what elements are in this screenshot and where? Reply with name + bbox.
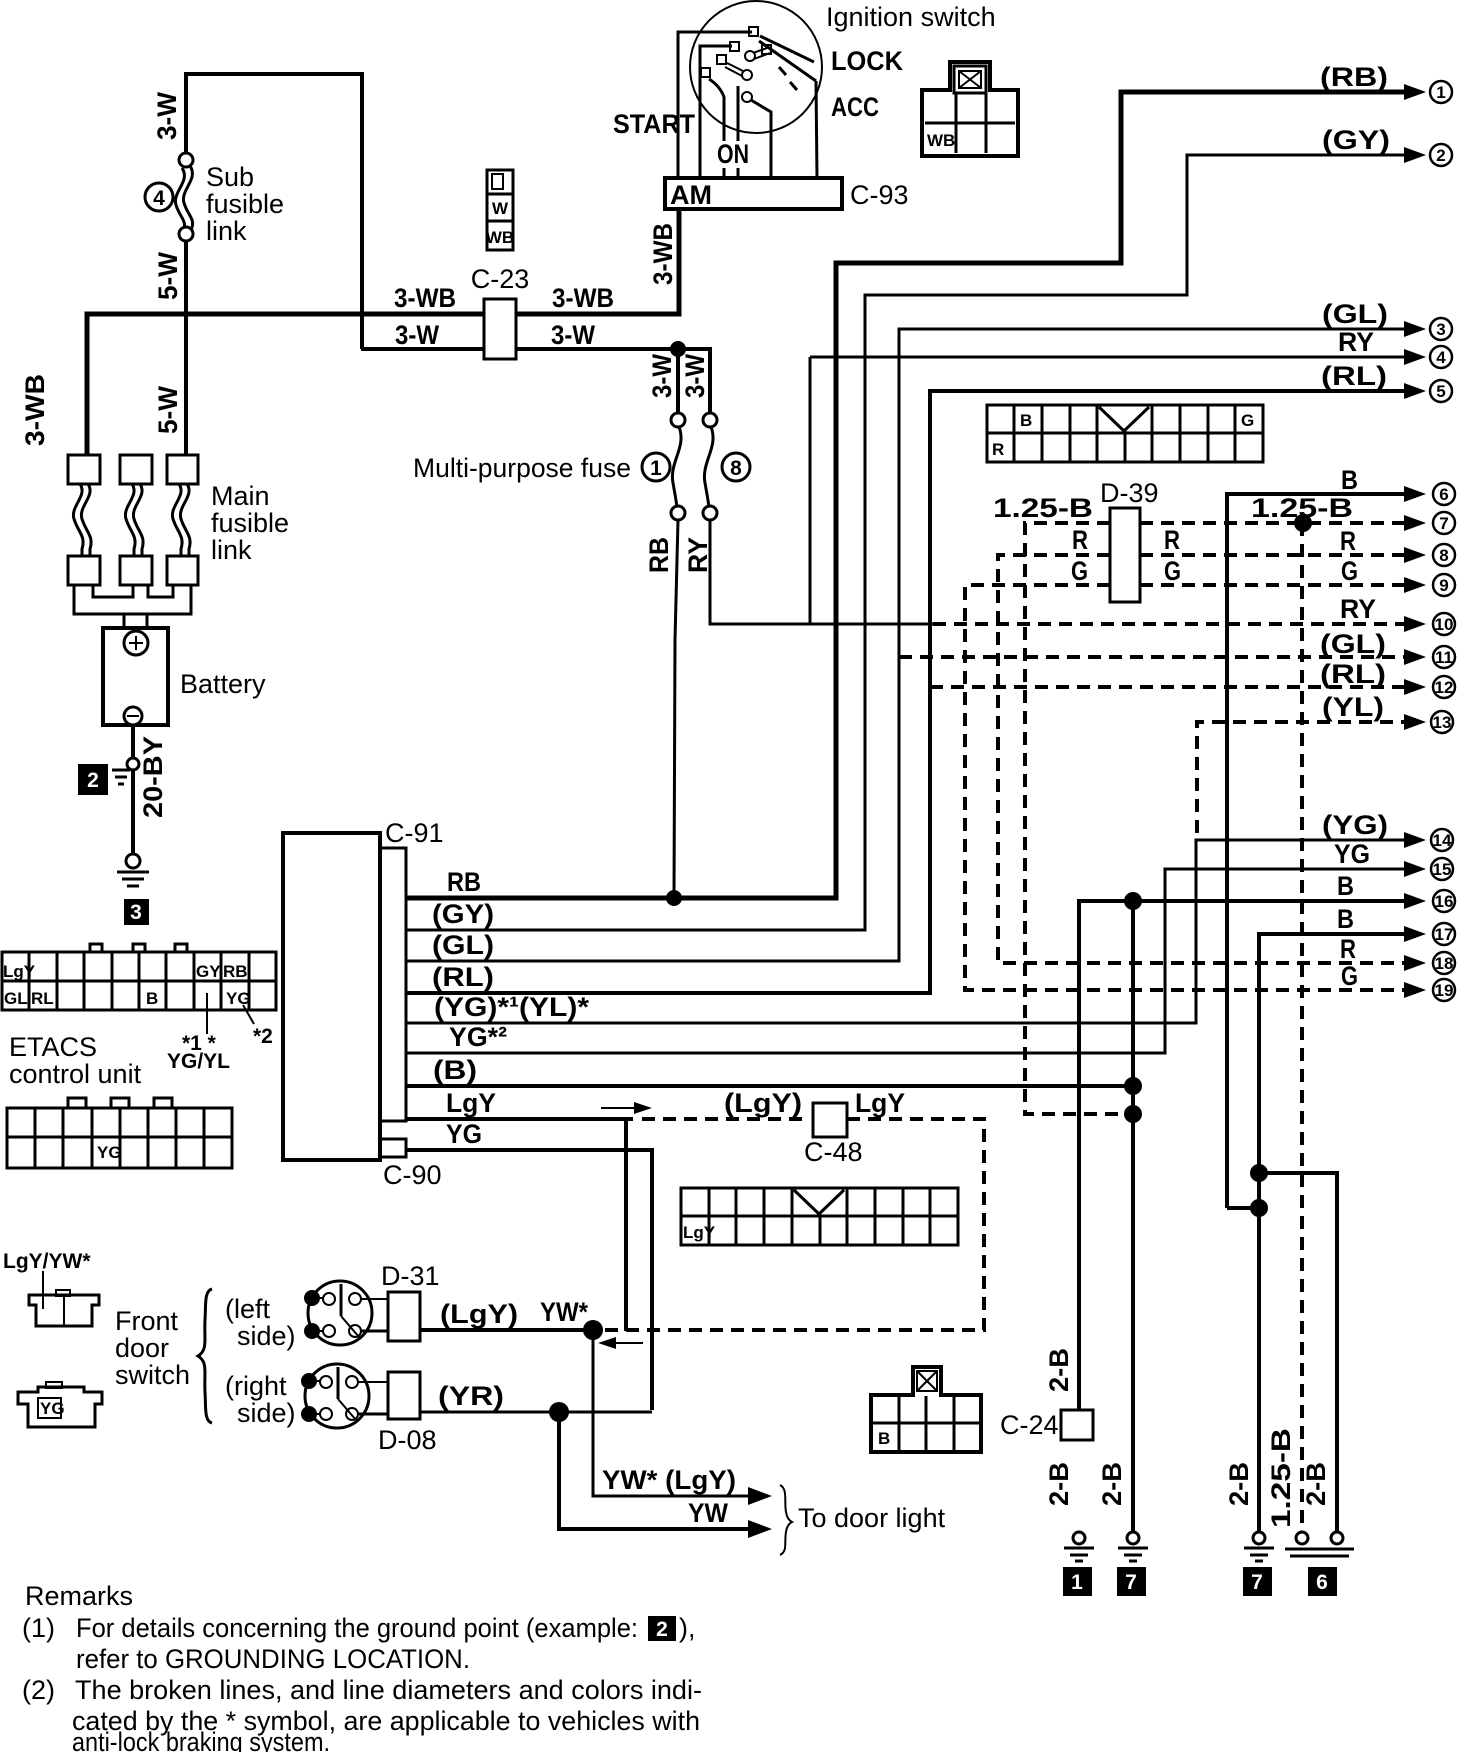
arrow 7 (1404, 515, 1426, 531)
connector icon (lower, YG) (18, 1387, 102, 1427)
bus 3-WB horizontal (87, 314, 484, 456)
svg-text:Front: Front (115, 1306, 179, 1336)
arrow 2 (1404, 147, 1426, 163)
svg-text:3-W: 3-W (395, 320, 439, 350)
svg-text:RB: RB (447, 867, 481, 897)
svg-text:2-B: 2-B (1044, 1348, 1074, 1392)
brace to door light (780, 1485, 792, 1555)
svg-text:R: R (1164, 525, 1180, 555)
svg-text:19: 19 (1435, 981, 1454, 1000)
svg-text:Multi-purpose fuse: Multi-purpose fuse (413, 453, 631, 483)
svg-text:*2: *2 (253, 1025, 273, 1048)
svg-text:control unit: control unit (9, 1059, 142, 1089)
svg-text:(B): (B) (433, 1055, 477, 1085)
svg-text:C-91: C-91 (385, 818, 444, 848)
svg-text:3-WB: 3-WB (648, 223, 678, 285)
svg-text:(YR): (YR) (438, 1381, 504, 1411)
svg-text:1: 1 (650, 457, 662, 480)
svg-text:C-93: C-93 (850, 180, 909, 210)
svg-text:link: link (211, 535, 252, 565)
ground tag 7a (1117, 1567, 1146, 1596)
svg-text:3-WB: 3-WB (20, 374, 50, 446)
connector C-24 box (1061, 1410, 1093, 1440)
wire YG*2 from C-91 to arrow 15 (406, 869, 1410, 1053)
main fusible link bottom boxes (68, 556, 100, 585)
svg-text:B: B (1337, 904, 1354, 934)
wire LgY dashed to C-48 (642, 1117, 810, 1121)
junction B17-branch (1250, 1164, 1268, 1182)
svg-text:2-B: 2-B (1301, 1462, 1331, 1506)
ground tag 1 (1063, 1567, 1092, 1596)
svg-text:4: 4 (1436, 348, 1446, 367)
wire 2-B branch to ground 6 (1259, 1173, 1337, 1532)
svg-text:G: G (1341, 556, 1358, 586)
arrow 13 (1404, 714, 1426, 730)
connector pin grid (upper right) (987, 405, 1263, 462)
arrow 10 (1404, 616, 1426, 632)
wire YL dashed to arrow 13 (1197, 722, 1410, 833)
flow arrow into junction (607, 1342, 643, 1344)
svg-text:anti-lock braking system.: anti-lock braking system. (72, 1727, 330, 1752)
svg-text:11: 11 (1435, 648, 1453, 667)
svg-text:2-B: 2-B (1224, 1462, 1254, 1506)
svg-text:7: 7 (1439, 514, 1448, 533)
wire RB from fuse to RB bus (674, 520, 678, 898)
wire RL from C-91 to arrow 5 (406, 391, 1410, 993)
brace (198, 1289, 212, 1423)
svg-text:The broken lines, and line dia: The broken lines, and line diameters and… (75, 1675, 702, 1705)
wire B16 from C-24 riser to arrow 16 (1079, 901, 1410, 1410)
svg-text:7: 7 (1125, 1571, 1137, 1594)
svg-text:(RB): (RB) (1320, 62, 1388, 92)
svg-text:3-W: 3-W (680, 354, 710, 398)
V key symbol in grid (1099, 407, 1149, 431)
svg-text:YW*: YW* (540, 1297, 588, 1327)
svg-text:For details concerning the gro: For details concerning the ground point … (76, 1613, 638, 1643)
wire B from C-91 to junction (406, 1084, 1133, 1088)
svg-text:door: door (115, 1333, 169, 1363)
svg-text:B: B (1341, 465, 1358, 495)
svg-text:(RL): (RL) (432, 962, 494, 992)
svg-text:LgY/YW*: LgY/YW* (3, 1250, 91, 1273)
arrow 18 (1404, 955, 1426, 971)
svg-text:RL: RL (31, 989, 54, 1008)
ETACS control unit box (283, 833, 380, 1160)
svg-text:Sub: Sub (206, 162, 254, 192)
svg-text:WB: WB (927, 131, 955, 150)
ETACS upper pin grid (2, 944, 276, 1010)
wire 20-BY battery to ground (131, 725, 135, 855)
wire GL from C-91 to arrow 3 (406, 329, 1410, 961)
arrow 1 (1404, 84, 1426, 100)
junction B wire (1124, 1077, 1142, 1095)
junction 1.25-B (1294, 514, 1312, 532)
svg-text:switch: switch (115, 1360, 190, 1390)
wire RL dashed to arrow 12 (930, 685, 1410, 689)
svg-text:1: 1 (1071, 1571, 1083, 1594)
junction 3-W (670, 341, 686, 357)
wire START contact to AM box (678, 32, 752, 178)
svg-text:(RL): (RL) (1321, 361, 1387, 391)
ground tag 7b (1243, 1567, 1272, 1596)
leader line *2 (243, 1005, 254, 1024)
svg-text:AM: AM (670, 180, 712, 210)
svg-text:LgY: LgY (855, 1088, 905, 1118)
svg-text:6: 6 (1316, 1571, 1328, 1594)
wire YW*(LgY) output (593, 1330, 755, 1496)
svg-text:refer to GROUNDING LOCATION.: refer to GROUNDING LOCATION. (76, 1644, 470, 1674)
connector face icon (bottom right, C-24) (871, 1367, 981, 1452)
main fusible link wavy links (81, 484, 91, 556)
wire LgY solid from C-91 (406, 1117, 633, 1121)
wire RB from C-91 to arrow 1 (406, 92, 1410, 898)
svg-text:3-W: 3-W (647, 354, 677, 398)
svg-text:(GY): (GY) (1322, 125, 1390, 155)
svg-text:Ignition switch: Ignition switch (826, 2, 996, 32)
wire GL dashed to arrow 11 (899, 655, 1410, 659)
svg-text:D-39: D-39 (1100, 478, 1159, 508)
connector pin grid (C-48 area) (681, 1188, 958, 1245)
connector D-31 box (388, 1292, 420, 1341)
sub fusible link wavy element (183, 166, 192, 230)
svg-text:YG: YG (1334, 839, 1370, 869)
svg-text:C-23: C-23 (471, 264, 530, 294)
ground symbol 3 (battery ground) (126, 854, 140, 868)
svg-text:1.25-B: 1.25-B (1266, 1428, 1296, 1528)
wire RY solid to dashed (810, 623, 933, 626)
ground point 2 symbol on wire (127, 758, 139, 770)
junction B-1208 (1250, 1199, 1268, 1217)
svg-text:1: 1 (1436, 83, 1445, 102)
battery (103, 628, 168, 725)
svg-text:2: 2 (1436, 146, 1445, 165)
connector C-23 box (484, 299, 516, 359)
svg-text:LgY: LgY (446, 1088, 496, 1118)
connector C-93 box (AM) (665, 178, 842, 209)
junction RB (666, 890, 682, 906)
wire ACC contact (751, 100, 771, 178)
wire GY from C-91 to arrow 2 (406, 155, 1410, 930)
wire LOCK contact (700, 46, 732, 178)
fuse 8 element (703, 413, 717, 427)
connector D-08 box (388, 1372, 420, 1419)
wire ON contact (709, 79, 724, 141)
wire G dashed right of D-39 to arrow 9 (1140, 583, 1410, 587)
svg-text:D-31: D-31 (381, 1261, 440, 1291)
wire R dashed right of D-39 to arrow 8 (1140, 553, 1410, 557)
svg-text:fusible: fusible (211, 508, 289, 538)
svg-text:Battery: Battery (180, 669, 266, 699)
svg-text:3-WB: 3-WB (552, 283, 614, 313)
svg-text:2-B: 2-B (1044, 1462, 1074, 1506)
connector icon (upper, LgY/YW) (29, 1295, 99, 1326)
svg-text:LgY: LgY (3, 962, 36, 981)
svg-text:12: 12 (1435, 678, 1454, 697)
wire (LgY)/YW* from D-31 (420, 1328, 595, 1332)
svg-text:(GY): (GY) (432, 899, 494, 929)
wire RY to arrow 4 (810, 356, 1410, 359)
wire 1.25-B dashed right of D-39 to arrow 7 (1140, 521, 1410, 525)
svg-text:side): side) (237, 1398, 296, 1428)
svg-text:G: G (1241, 411, 1254, 430)
svg-text:ETACS: ETACS (9, 1032, 97, 1062)
svg-text:YG: YG (97, 1143, 122, 1162)
svg-text:G: G (1071, 556, 1088, 586)
fuse 1 element (671, 413, 685, 427)
arrow 3 (1404, 321, 1426, 337)
svg-text:B: B (1337, 871, 1354, 901)
svg-text:3-W: 3-W (551, 320, 595, 350)
arrow 9 (1404, 577, 1426, 593)
svg-text:(GL): (GL) (1320, 629, 1386, 659)
connector D-39 box (1110, 508, 1140, 602)
svg-text:15: 15 (1433, 860, 1452, 879)
svg-text:4: 4 (153, 187, 165, 210)
arrow out YW (748, 1520, 772, 1538)
svg-text:LOCK: LOCK (831, 46, 903, 76)
svg-text:B: B (878, 1429, 890, 1448)
svg-text:9: 9 (1439, 576, 1448, 595)
leader line *1 (206, 993, 208, 1034)
arrow 8 (1404, 547, 1426, 563)
svg-text:YG: YG (40, 1399, 65, 1418)
ignition switch wiper arms (760, 36, 814, 62)
svg-text:14: 14 (1433, 831, 1452, 850)
svg-text:D-08: D-08 (378, 1425, 437, 1455)
wire 5-W from sub fusible link to main fusible link (184, 241, 188, 456)
circled 8 (fuse id) (722, 453, 750, 481)
svg-text:Main: Main (211, 481, 270, 511)
left door switch circle D-31 (308, 1281, 372, 1345)
wire 2-B ground 7a vertical (1131, 901, 1135, 1532)
connector face icon WB (ignition) (922, 62, 1018, 156)
svg-text:5-W: 5-W (153, 386, 183, 434)
svg-text:Remarks: Remarks (25, 1581, 133, 1611)
wire (YR) from D-08 (420, 1411, 652, 1414)
svg-text:7: 7 (1251, 1571, 1263, 1594)
arrow 5 (1404, 383, 1426, 399)
wire YG from C-90 (406, 1150, 652, 1410)
wire R dashed left of D-39 (998, 555, 1410, 963)
ignition switch contact squares (749, 27, 758, 36)
ground 7a symbol (1127, 1532, 1139, 1544)
fuse terminal circle (sub fusible link top) (179, 153, 193, 167)
flow arrow on LgY (601, 1107, 640, 1109)
svg-text:(YG)*¹(YL)*: (YG)*¹(YL)* (434, 992, 590, 1022)
svg-text:(LgY): (LgY) (724, 1088, 802, 1118)
svg-text:5-W: 5-W (153, 252, 183, 300)
svg-text:G: G (1164, 556, 1181, 586)
svg-text:YG: YG (446, 1119, 482, 1149)
svg-text:ON: ON (717, 139, 749, 169)
svg-text:RY: RY (1338, 327, 1374, 357)
svg-text:G: G (1341, 961, 1358, 991)
wire 3-W top loop from sub fusible link to 3-W bus (186, 74, 362, 349)
connector C-90 strip (380, 1139, 406, 1157)
ETACS lower pin grid (7, 1098, 232, 1168)
arrow out YW*(LgY) (748, 1487, 772, 1505)
svg-text:3: 3 (130, 901, 142, 924)
svg-text:17: 17 (1435, 925, 1454, 944)
svg-text:13: 13 (1433, 713, 1452, 732)
junction 1.25-B dashed (1124, 1105, 1142, 1123)
wire ON contact 2 (737, 86, 740, 141)
ON position stubs (723, 168, 726, 178)
wire AM from switch (816, 81, 817, 178)
svg-text:YG/YL: YG/YL (167, 1050, 230, 1073)
svg-text:6: 6 (1439, 485, 1448, 504)
svg-text:(2): (2) (22, 1675, 55, 1705)
arrow 19 (1404, 982, 1426, 998)
circled 1 (fuse id) (642, 453, 670, 481)
junction YW (549, 1402, 569, 1422)
ground point 3 black tag (124, 899, 149, 925)
svg-text:START: START (613, 109, 695, 139)
wire 1.25-B dashed left of D-39 (1025, 523, 1127, 1114)
fuse terminal circle (sub fusible link bottom) (179, 227, 193, 241)
connector C-91 strip (380, 848, 406, 1121)
wire B vertical to arrow 6 (1227, 494, 1410, 1208)
ground 1 symbol (1073, 1532, 1085, 1544)
circled 4 (sub fusible link id) (145, 183, 173, 211)
svg-text:8: 8 (730, 457, 742, 480)
svg-text:R: R (1072, 525, 1088, 555)
svg-text:20-BY: 20-BY (138, 736, 168, 818)
svg-text:2: 2 (87, 769, 99, 792)
svg-text:R: R (1340, 934, 1356, 964)
arrow 17 (1404, 926, 1426, 942)
main fusible link top boxes (68, 455, 100, 484)
connector C-48 box (813, 1103, 847, 1137)
svg-text:(GL): (GL) (432, 930, 494, 960)
connector C-23 icon (487, 170, 513, 194)
svg-text:ACC: ACC (831, 92, 879, 122)
svg-text:),: ), (679, 1613, 696, 1643)
wire LgY dashed after C-48 (598, 1119, 984, 1330)
wire RY from fuse (710, 357, 810, 624)
bus joining fusible links to battery (93, 585, 133, 597)
svg-text:YW: YW (688, 1498, 728, 1528)
svg-text:(GL): (GL) (1322, 299, 1388, 329)
svg-text:YG*²: YG*² (449, 1022, 507, 1052)
svg-text:WB: WB (486, 228, 514, 247)
arrow 12 (1404, 679, 1426, 695)
ignition switch circle (690, 1, 822, 133)
ground tag 6 (1308, 1567, 1337, 1596)
arrow 15 (1404, 861, 1426, 877)
svg-text:16: 16 (1435, 892, 1454, 911)
ground 7b symbol (1253, 1532, 1265, 1544)
svg-text:LgY: LgY (683, 1223, 716, 1242)
wire G dashed left of D-39 (965, 585, 1410, 990)
ground point 2 black tag (78, 764, 108, 795)
svg-text:To door light: To door light (798, 1503, 946, 1533)
svg-text:10: 10 (1435, 615, 1454, 634)
right door switch circle D-08 (305, 1364, 369, 1428)
svg-text:R: R (1340, 526, 1356, 556)
ignition switch pivot circles (745, 51, 755, 61)
wire YW output (559, 1412, 755, 1529)
svg-text:(YG): (YG) (1322, 810, 1388, 840)
svg-text:8: 8 (1439, 546, 1448, 565)
svg-text:1.25-B: 1.25-B (993, 493, 1093, 523)
svg-text:YW* (LgY): YW* (LgY) (602, 1465, 736, 1495)
svg-text:C-48: C-48 (804, 1137, 863, 1167)
wire RY dashed to arrow 10 (933, 622, 1410, 626)
svg-text:RB: RB (223, 962, 248, 981)
svg-text:2: 2 (656, 1618, 668, 1641)
ground 6 symbol (shared) (1296, 1532, 1308, 1544)
wire 3-W from C-23 to fuses (361, 347, 484, 351)
arrow 11 (1404, 649, 1426, 665)
arrow 4 (1404, 349, 1426, 365)
svg-text:3: 3 (1436, 320, 1445, 339)
svg-text:(1): (1) (22, 1613, 55, 1643)
svg-text:link: link (206, 216, 247, 246)
svg-text:side): side) (237, 1321, 296, 1351)
svg-text:18: 18 (1435, 954, 1454, 973)
arrow 6 (1404, 486, 1426, 502)
junction B16 (1124, 892, 1142, 910)
svg-text:(RL): (RL) (1320, 659, 1386, 689)
wire YG/YL from C-91 to arrow 14 (406, 840, 1410, 1023)
svg-text:3-WB: 3-WB (394, 283, 456, 313)
svg-text:(left: (left (225, 1294, 271, 1324)
svg-text:GL: GL (4, 989, 28, 1008)
arrow 14 (1404, 832, 1426, 848)
junction YW* (583, 1320, 603, 1340)
wire B jog to ground wire (1227, 1206, 1259, 1210)
svg-text:(LgY): (LgY) (440, 1299, 518, 1329)
V key symbol in C-48 grid (794, 1190, 844, 1214)
svg-text:5: 5 (1436, 382, 1445, 401)
svg-text:(right: (right (225, 1371, 287, 1401)
svg-text:RY: RY (1340, 594, 1376, 624)
svg-text:fusible: fusible (206, 189, 284, 219)
leader line (42, 1271, 44, 1309)
svg-text:R: R (992, 440, 1004, 459)
svg-text:GY: GY (196, 962, 221, 981)
svg-text:B: B (146, 989, 158, 1008)
wire LgY drop to door switch (624, 1119, 628, 1331)
svg-text:C-24: C-24 (1000, 1410, 1059, 1440)
arrow 16 (1404, 893, 1426, 909)
svg-text:(YL): (YL) (1322, 692, 1384, 722)
svg-text:RB: RB (644, 537, 674, 573)
wire 1.25-B dashed vertical to ground (1300, 523, 1304, 1532)
svg-text:W: W (492, 199, 509, 218)
svg-text:B: B (1020, 411, 1032, 430)
svg-text:3-W: 3-W (152, 92, 182, 140)
svg-text:C-90: C-90 (383, 1160, 442, 1190)
ignition switch dashed detent (779, 67, 786, 75)
wire B17 to arrow 17 (1259, 934, 1410, 1532)
svg-text:2-B: 2-B (1097, 1462, 1127, 1506)
svg-text:YG: YG (226, 989, 251, 1008)
